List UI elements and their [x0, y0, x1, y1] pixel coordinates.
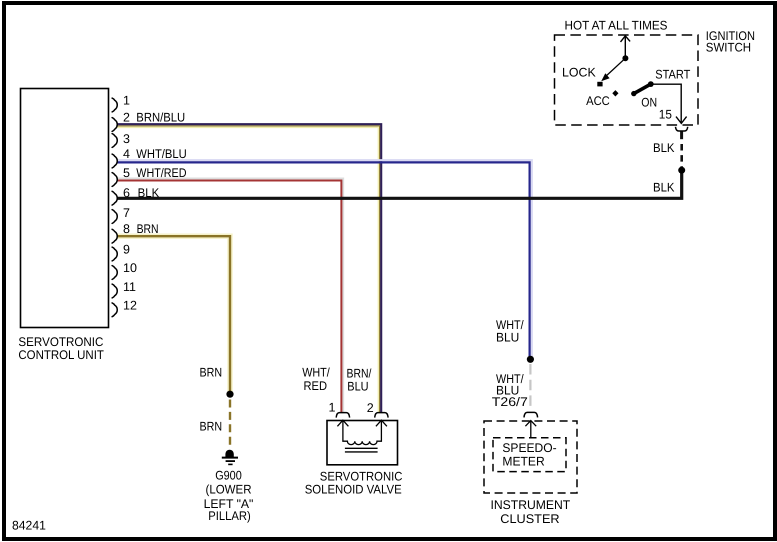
svg-text:T26/7: T26/7: [492, 395, 528, 409]
ignition switch START contact node: [648, 81, 654, 87]
ignition switch dashed box: [555, 35, 699, 125]
svg-text:BLK: BLK: [653, 180, 675, 194]
pin 12 connector arc (control unit): [112, 303, 117, 317]
speedometer inner dashed box: [493, 438, 566, 472]
svg-text:(LOWER: (LOWER: [206, 482, 252, 496]
ground G900 bar 2: [226, 460, 235, 462]
pin 1 connector arc (control unit): [112, 98, 117, 112]
svg-text:8: 8: [123, 222, 130, 236]
svg-text:84241: 84241: [12, 519, 46, 533]
solenoid valve pin 1 connector arc: [336, 413, 349, 418]
svg-text:SERVOTRONIC: SERVOTRONIC: [320, 470, 403, 484]
svg-text:BLU: BLU: [496, 331, 519, 345]
svg-text:1: 1: [123, 94, 130, 108]
pin 8 connector arc (control unit): [112, 229, 117, 243]
instrument cluster T26/7 connector arc: [524, 412, 538, 417]
ignition switch feed arrow stem (hot at all times): [624, 37, 626, 58]
svg-text:G900: G900: [215, 469, 242, 483]
ignition switch LOCK contact: [597, 82, 602, 87]
servotronic solenoid valve box: [327, 421, 398, 465]
ignition switch ACC contact: [612, 90, 618, 96]
svg-text:BLK: BLK: [653, 141, 675, 155]
svg-text:6: 6: [123, 186, 130, 200]
pin 3 connector arc (control unit): [112, 134, 117, 148]
svg-text:SWITCH: SWITCH: [706, 40, 751, 54]
svg-text:CONTROL UNIT: CONTROL UNIT: [18, 348, 104, 362]
speedometer input arrow stem: [530, 421, 532, 438]
svg-text:WHT/RED: WHT/RED: [136, 166, 186, 180]
svg-text:HOT AT ALL TIMES: HOT AT ALL TIMES: [565, 18, 668, 32]
svg-text:2: 2: [123, 111, 130, 125]
svg-text:START: START: [655, 67, 690, 81]
pin 2 connector arc (control unit): [112, 118, 117, 132]
svg-text:11: 11: [123, 280, 136, 294]
pin 5 connector arc (control unit): [112, 173, 117, 187]
instrument cluster outer dashed box: [484, 421, 577, 493]
svg-text:BRN: BRN: [200, 365, 223, 379]
svg-text:INSTRUMENT: INSTRUMENT: [491, 498, 571, 512]
solenoid valve pin 1 arrowhead: [337, 420, 348, 426]
ignition switch rotor arm line (to LOCK): [605, 58, 626, 77]
ground G900 bar 3: [228, 463, 232, 465]
wire WHT/RED white stripe (pin 5 to solenoid valve pin 1): [117, 178, 343, 412]
wire WHT/BLU white stripe (pin 4 to splice): [117, 160, 532, 357]
pin 6 connector arc (control unit): [112, 191, 117, 205]
svg-text:BRN/BLU: BRN/BLU: [136, 111, 185, 125]
ignition switch ON contact end node: [631, 91, 636, 96]
svg-text:ON: ON: [641, 95, 657, 109]
svg-text:15: 15: [659, 108, 672, 122]
wire BRN/BLU pale-yellow halo (pin 2 to solenoid valve pin 2): [117, 127, 378, 412]
svg-text:SERVOTRONIC: SERVOTRONIC: [18, 335, 103, 349]
svg-text:PILLAR): PILLAR): [208, 509, 251, 523]
svg-text:2: 2: [367, 401, 374, 415]
solenoid core bar 2: [345, 451, 378, 453]
pin 11 connector arc (control unit): [112, 284, 117, 298]
pin 4 connector arc (control unit): [112, 154, 117, 168]
svg-text:BLK: BLK: [138, 186, 160, 200]
ground G900 dome: [225, 450, 233, 458]
ground G900 bar 1: [222, 457, 238, 459]
solenoid valve pin 2 arrowhead: [376, 420, 387, 426]
svg-text:RED: RED: [304, 379, 328, 393]
svg-text:BRN/: BRN/: [347, 367, 372, 381]
wire from START contact to terminal 15: [652, 84, 681, 123]
wire BLK (pin 6 to ignition switch splice): [117, 170, 682, 198]
ignition switch rotor arrowhead (LOCK direction): [601, 73, 609, 81]
wire WHT/RED red stripe (pin 5 to solenoid valve pin 1): [117, 181, 341, 413]
wire BRN dashed (splice to ground G900): [229, 400, 231, 449]
svg-text:ACC: ACC: [586, 94, 610, 108]
solenoid coil winding: [343, 422, 382, 445]
svg-text:WHT/: WHT/: [302, 366, 330, 380]
ignition switch ON-START contact bar: [634, 84, 651, 94]
wire WHT/BLU blue stripe (pin 4 to splice): [117, 162, 530, 358]
svg-text:CLUSTER: CLUSTER: [500, 512, 559, 526]
svg-text:BRN: BRN: [137, 222, 159, 236]
servotronic control unit box: [21, 89, 109, 328]
terminal 15 arrowhead (down): [676, 117, 687, 124]
speedometer input arrowhead (up): [525, 421, 536, 427]
svg-text:7: 7: [123, 206, 130, 220]
wire BRN/BLU brown stripe (pin 2 to solenoid valve pin 2): [117, 126, 380, 413]
svg-text:5: 5: [123, 166, 130, 180]
solenoid valve pin 2 connector arc: [375, 413, 388, 418]
node splice S2 (BRN wire): [226, 391, 233, 398]
node splice S1 (BLK wires): [678, 167, 685, 174]
svg-text:WHT/BLU: WHT/BLU: [136, 147, 186, 161]
svg-text:3: 3: [123, 132, 130, 146]
svg-text:BLU: BLU: [347, 380, 368, 394]
svg-text:METER: METER: [502, 455, 544, 469]
pin 10 connector arc (control unit): [112, 266, 117, 280]
svg-text:4: 4: [123, 147, 130, 161]
svg-text:12: 12: [123, 299, 137, 313]
svg-text:BRN: BRN: [200, 420, 223, 434]
wire BRN pale halo (pin 8 to ground): [117, 236, 230, 392]
svg-text:SPEEDO-: SPEEDO-: [502, 441, 556, 455]
pin 7 connector arc (control unit): [112, 210, 117, 224]
svg-text:SOLENOID VALVE: SOLENOID VALVE: [305, 483, 402, 497]
svg-text:1: 1: [329, 400, 336, 414]
wire BLK dashed (ignition switch terminal 15 down to splice): [680, 144, 683, 168]
solenoid core bar 1: [345, 447, 378, 449]
svg-text:9: 9: [123, 243, 130, 257]
node splice S3 (WHT/BLU wire): [527, 356, 534, 363]
pin 9 connector arc (control unit): [112, 247, 117, 261]
ignition switch feed arrowhead: [621, 36, 631, 42]
terminal 15 connector stub: [680, 131, 683, 139]
wire BRN/BLU blue stripe (pin 2 to solenoid valve pin 2): [117, 124, 381, 412]
svg-text:LOCK: LOCK: [562, 65, 596, 79]
svg-text:10: 10: [123, 261, 137, 275]
wire WHT/BLU dashed (splice to instrument cluster T26/7): [529, 364, 531, 411]
terminal 15 connector cup: [676, 127, 688, 131]
wire BRN (pin 8 to ground G900): [117, 236, 230, 392]
ignition switch rotor pivot node: [622, 55, 628, 61]
